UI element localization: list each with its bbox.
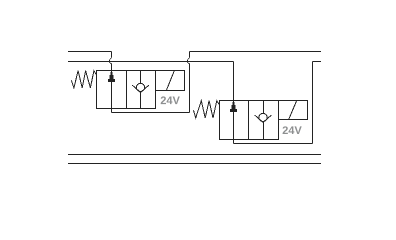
wire right stub (clipped at right edge) <box>313 61 322 63</box>
solenoid coil Y1 diagonal <box>167 71 175 90</box>
valve V1 body <box>97 71 156 109</box>
wire drop 3 (rail B corner down through valve V2) <box>233 62 235 144</box>
valve V2 check-valve ball <box>259 113 267 121</box>
wire under valve V1 <box>112 112 190 114</box>
valve V2 body <box>220 101 279 140</box>
supply rail A (top left, clipped at left edge) <box>68 51 112 53</box>
valve V1 check-valve seat <box>132 85 149 92</box>
supply rail C (top right, clipped at right edge) <box>190 51 322 53</box>
valve V2 plug (blocked position) <box>230 102 237 112</box>
valve V2 check-valve flow line <box>263 101 265 140</box>
supply rail B (middle rail, clipped at left edge) <box>68 61 234 63</box>
label 24V (valve V1) <box>161 96 180 104</box>
wire under valve V2 <box>234 143 313 145</box>
solenoid coil Y2 <box>279 101 308 120</box>
solenoid coil Y2 diagonal <box>289 101 297 119</box>
valve V1 check-valve flow line <box>140 71 142 109</box>
valve V1 check-valve ball <box>136 83 144 91</box>
valve V2 position divider <box>248 101 250 140</box>
bottom rail 2 (clipped both ends) <box>68 163 321 165</box>
wire drop 1 (rail A down through valve V1, kink crossing rail B) <box>110 52 112 113</box>
bottom rail 1 (clipped both ends) <box>68 154 321 156</box>
wire right riser <box>312 62 314 144</box>
solenoid coil Y1 <box>156 71 185 91</box>
valve V1 plug (blocked position) <box>108 72 115 82</box>
label 24V (valve V2) <box>283 126 302 134</box>
valve V1 position divider <box>126 71 128 109</box>
valve V2 check-valve seat <box>255 115 272 122</box>
valve V1 return spring <box>71 71 96 88</box>
wire drop 2 (rail C down to node under valve V1, kink crossing rail B) <box>188 52 190 113</box>
valve V2 return spring <box>194 101 220 118</box>
